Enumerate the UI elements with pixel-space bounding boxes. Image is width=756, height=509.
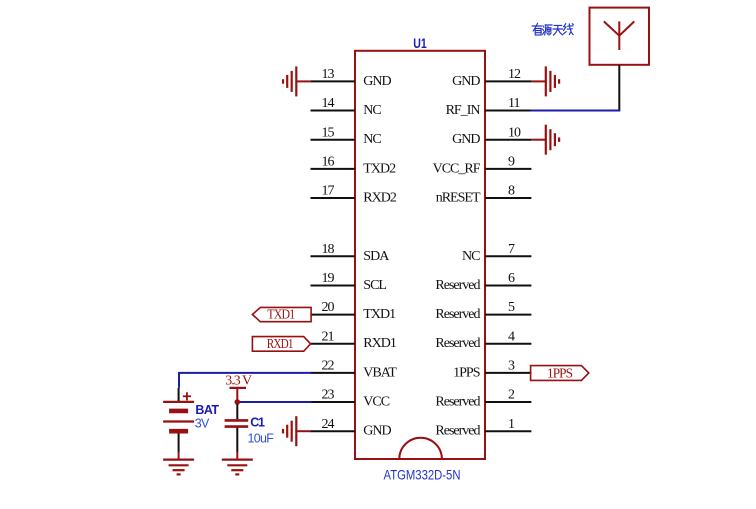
svg-text:1PPS: 1PPS	[453, 365, 480, 380]
pin 14 stub wire	[311, 110, 356, 112]
svg-text:9: 9	[508, 154, 515, 169]
svg-text:Reserved: Reserved	[435, 395, 480, 410]
pin 16 stub wire	[311, 168, 356, 170]
svg-text:21: 21	[322, 329, 335, 344]
wire VBAT net (blue) pin 22 to battery	[179, 373, 312, 388]
pin 18 stub wire	[311, 255, 356, 257]
battery plus sign	[183, 392, 191, 400]
svg-text:TXD1: TXD1	[267, 308, 295, 323]
svg-text:15: 15	[322, 125, 335, 140]
svg-text:RXD1: RXD1	[363, 336, 397, 351]
svg-text:RXD2: RXD2	[363, 191, 397, 206]
svg-text:16: 16	[322, 154, 335, 169]
svg-text:1PPS: 1PPS	[547, 366, 572, 381]
svg-text:3V: 3V	[195, 416, 210, 430]
pin 1 stub wire	[485, 430, 531, 432]
svg-text:TXD1: TXD1	[363, 307, 396, 322]
antenna box (active antenna)	[590, 8, 650, 65]
battery BAT terminal pins (black)	[178, 388, 180, 453]
pin 20 stub wire	[311, 314, 356, 316]
svg-text:13: 13	[322, 67, 335, 82]
svg-text:12: 12	[508, 67, 521, 82]
svg-text:BAT: BAT	[195, 403, 219, 417]
svg-text:SDA: SDA	[363, 249, 390, 264]
svg-text:18: 18	[322, 242, 335, 257]
pin 17 stub wire	[311, 197, 356, 199]
svg-text:8: 8	[508, 184, 515, 199]
capacitor C1 plates	[225, 420, 249, 426]
svg-text:7: 7	[508, 242, 515, 257]
pin 5 stub wire	[485, 314, 531, 316]
pin 15 stub wire	[311, 139, 356, 141]
wire antenna vertical (black)	[618, 65, 620, 111]
svg-text:Reserved: Reserved	[435, 424, 480, 439]
antenna label 有源天线 (drawn as paths)	[532, 23, 573, 35]
pin 11 stub wire	[485, 110, 531, 112]
pin 7 stub wire	[485, 255, 531, 257]
svg-text:3: 3	[508, 359, 515, 374]
ground symbol (pin 13 GND)	[283, 66, 311, 96]
svg-text:VCC_RF: VCC_RF	[433, 161, 481, 176]
pin 21 stub wire	[311, 343, 356, 345]
svg-text:3.3 V: 3.3 V	[225, 374, 252, 389]
port TXD1 (left-pointing)	[252, 307, 311, 322]
svg-text:14: 14	[322, 96, 335, 111]
svg-text:Reserved: Reserved	[435, 336, 480, 351]
pin 8 stub wire	[485, 197, 531, 199]
svg-text:11: 11	[508, 96, 520, 111]
svg-text:C1: C1	[250, 416, 265, 430]
ground symbol (battery negative terminal)	[163, 452, 194, 475]
IC U1 body (ATGM332D-5N GPS module)	[355, 51, 485, 459]
svg-text:RF_IN: RF_IN	[446, 103, 481, 118]
pin 2 stub wire	[485, 401, 531, 403]
svg-text:nRESET: nRESET	[436, 191, 481, 206]
ground symbol (pin 12 GND)	[531, 66, 559, 96]
svg-text:2: 2	[508, 388, 515, 403]
pin 23 stub wire	[311, 401, 356, 403]
port 1PPS (right-pointing)	[531, 366, 589, 382]
svg-text:NC: NC	[462, 249, 480, 264]
pin 10 stub wire	[485, 139, 531, 141]
svg-text:GND: GND	[452, 74, 480, 89]
svg-text:U1: U1	[413, 35, 427, 51]
port RXD1 (right-pointing)	[252, 337, 310, 353]
pin 3 stub wire	[485, 372, 531, 374]
wire VCC net (blue) pin 23 to junction	[237, 401, 311, 403]
pin 9 stub wire	[485, 168, 531, 170]
svg-text:NC: NC	[363, 132, 381, 147]
junction dot VCC node	[235, 399, 241, 405]
svg-text:17: 17	[322, 184, 335, 199]
svg-text:4: 4	[508, 329, 515, 344]
svg-text:GND: GND	[452, 132, 480, 147]
svg-text:22: 22	[322, 359, 335, 374]
svg-text:19: 19	[322, 271, 335, 286]
svg-text:NC: NC	[363, 103, 381, 118]
pin 13 stub wire	[311, 80, 356, 82]
svg-text:Reserved: Reserved	[435, 307, 480, 322]
wire RF_IN net (blue) pin 11 to antenna	[531, 110, 621, 112]
ground symbol (pin 10 GND)	[531, 125, 559, 155]
svg-text:10: 10	[508, 125, 521, 140]
svg-text:VBAT: VBAT	[363, 365, 397, 380]
capacitor C1 terminal pins (black)	[236, 404, 238, 453]
svg-text:VCC: VCC	[363, 395, 389, 410]
svg-text:Reserved: Reserved	[435, 278, 480, 293]
svg-text:23: 23	[322, 388, 335, 403]
svg-text:GND: GND	[363, 424, 391, 439]
svg-text:TXD2: TXD2	[363, 161, 396, 176]
ground symbol (pin 24 GND)	[283, 416, 311, 446]
power symbol 3.3V bar	[230, 388, 247, 402]
pin 6 stub wire	[485, 284, 531, 286]
svg-text:ATGM332D-5N: ATGM332D-5N	[384, 467, 461, 483]
battery BAT plates	[163, 402, 194, 431]
pin 24 stub wire	[311, 430, 356, 432]
pin 4 stub wire	[485, 343, 531, 345]
svg-text:GND: GND	[363, 74, 391, 89]
svg-text:5: 5	[508, 300, 515, 315]
svg-text:SCL: SCL	[363, 278, 386, 293]
svg-text:10uF: 10uF	[248, 431, 275, 445]
svg-text:1: 1	[508, 417, 515, 432]
svg-text:RXD1: RXD1	[267, 337, 294, 352]
svg-text:6: 6	[508, 271, 515, 286]
svg-text:24: 24	[322, 417, 335, 432]
pin 22 stub wire	[311, 372, 356, 374]
pin 12 stub wire	[485, 80, 531, 82]
svg-text:20: 20	[322, 300, 335, 315]
ground symbol (capacitor C1 negative terminal)	[222, 452, 253, 475]
pin 19 stub wire	[311, 284, 356, 286]
